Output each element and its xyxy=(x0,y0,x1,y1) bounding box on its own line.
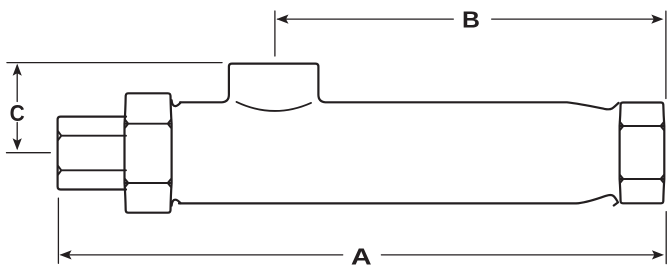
dimension line B xyxy=(278,18,662,20)
right hex nut outline xyxy=(620,103,665,204)
fillet squiggle: hex nut to tube, top xyxy=(172,100,181,106)
male hex end upper flat line with edge wedge xyxy=(58,131,126,140)
dimension line C shaft xyxy=(16,66,18,149)
large hex nut upper flat line with edge wedges xyxy=(125,119,171,128)
extension line: right end (right reference for dims B and A) xyxy=(665,11,667,263)
extension line: left end (left reference for dim A) xyxy=(57,198,59,263)
arrowhead: dim B right xyxy=(651,15,663,24)
arrowhead: dim A right xyxy=(652,250,664,259)
male hex end lower flat line with edge wedge xyxy=(58,166,126,175)
large hex nut lower flat line with edge wedges xyxy=(125,179,171,188)
boss base arc on tube xyxy=(237,102,312,111)
dimension line A xyxy=(61,254,662,256)
tube bottom line with taper to right hex xyxy=(179,195,618,206)
male hex end outline (left fitting end) xyxy=(58,117,126,190)
arrowhead: dim C down xyxy=(13,138,22,150)
large hex nut outline xyxy=(125,93,172,212)
svg-text:C: C xyxy=(10,100,25,126)
arrowhead: dim A left xyxy=(60,250,72,259)
fillet squiggle: hex nut to tube, bottom xyxy=(172,200,181,206)
arrowhead: dim C up xyxy=(13,64,22,76)
extension line: centerline stub (lower reference for dim C) xyxy=(7,152,51,154)
right hex nut upper flat line with edge wedges xyxy=(620,122,664,130)
arrowhead: dim B left xyxy=(276,15,288,24)
svg-text:A: A xyxy=(351,243,372,270)
extension line: boss-top level (upper reference for dim C) xyxy=(7,62,222,64)
right hex nut lower flat line with edge wedges xyxy=(620,175,664,183)
tube top line with boss (port) outline xyxy=(180,64,619,110)
svg-text:B: B xyxy=(462,8,480,34)
extension line: boss axis (left reference for dim B) xyxy=(274,11,276,56)
